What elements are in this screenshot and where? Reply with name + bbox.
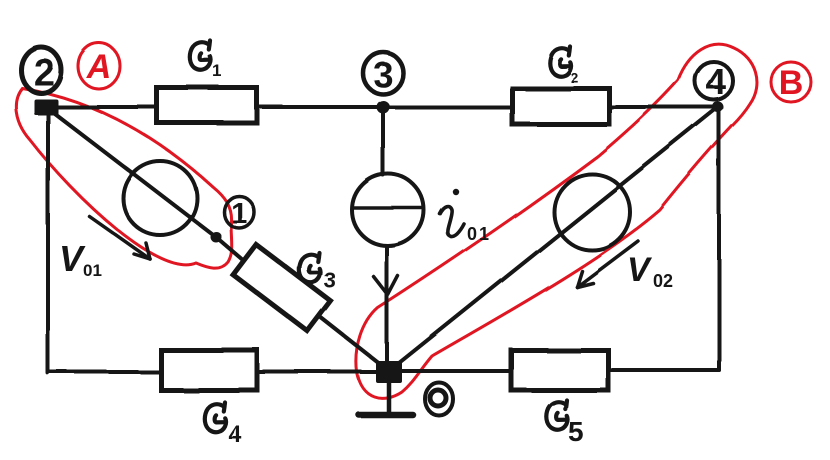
svg-text:01: 01: [83, 261, 102, 280]
svg-text:4: 4: [228, 421, 242, 448]
svg-text:3: 3: [324, 268, 336, 293]
svg-text:2: 2: [33, 52, 54, 94]
svg-text:5: 5: [568, 416, 584, 447]
svg-text:01: 01: [467, 224, 491, 244]
svg-text:2: 2: [570, 69, 578, 85]
svg-text:4: 4: [706, 61, 726, 102]
svg-text:1: 1: [213, 62, 222, 81]
svg-text:V: V: [627, 251, 653, 289]
svg-text:3: 3: [373, 54, 393, 95]
svg-text:02: 02: [653, 271, 673, 291]
svg-text:1: 1: [231, 197, 248, 230]
svg-text:V: V: [59, 238, 86, 279]
svg-text:A: A: [86, 48, 112, 86]
svg-text:B: B: [779, 64, 804, 102]
